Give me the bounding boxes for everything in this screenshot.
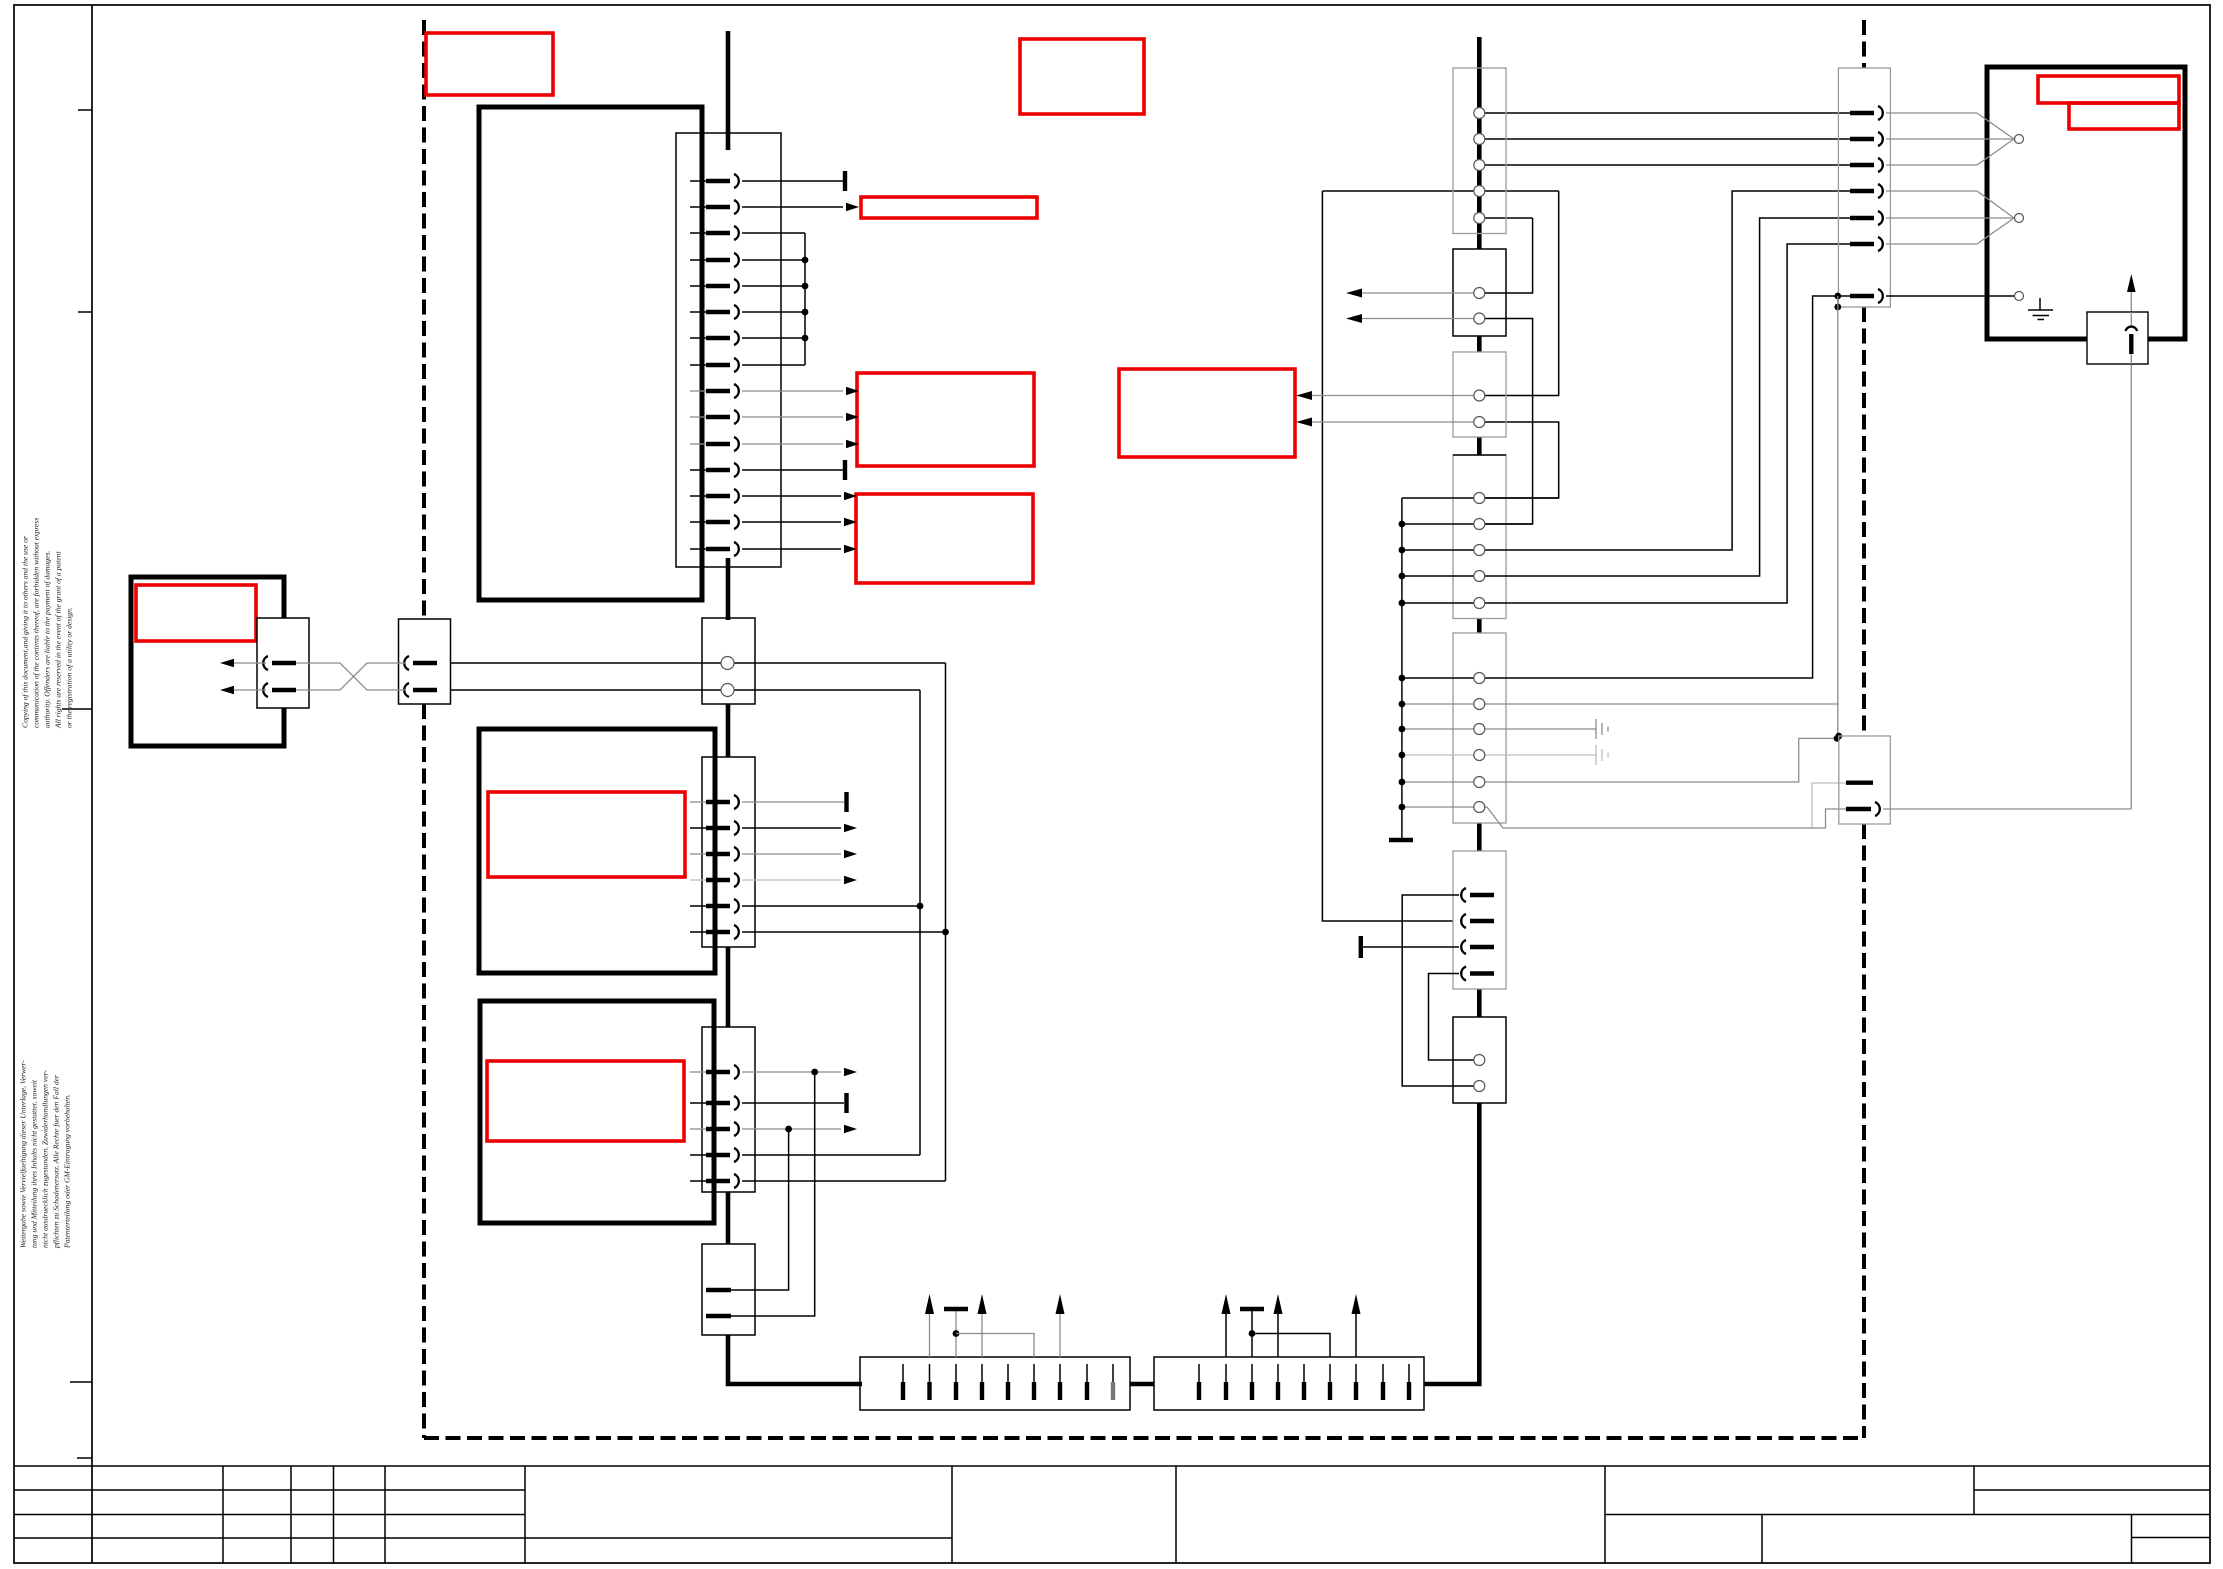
wire X1.11 arrow [742,443,843,445]
receiver stub 5 [1886,217,2013,219]
terminator T3 [844,792,848,812]
X11 pin 1 [1846,781,1873,785]
chassis ground 2 [1596,745,1608,765]
wire X1.1 to terminator [742,180,843,182]
X7 pin 1 [404,656,409,670]
component K4 outline (left device) [131,577,284,746]
svg-text:pflichten zu Schadenersatz. Al: pflichten zu Schadenersatz. Alle Rechte … [52,1075,61,1249]
svg-text:Patenterteilung oder GM-Eintra: Patenterteilung oder GM-Eintragung vorbe… [63,1094,72,1249]
shield drop wire [1837,296,1839,736]
cabinet boundary dashed right middle [1862,307,1866,736]
vertical net V1 [945,663,947,1181]
bus below X1 [726,558,731,620]
frame column divider [91,5,93,1563]
connector X3 body [702,757,755,947]
X8 arrow up 2 [981,1314,983,1357]
wire D1 [1402,497,1559,499]
wire X1.6 [742,311,805,313]
X9 arrow up 3 [1355,1314,1357,1357]
current source box [2087,312,2148,364]
wire E5 hook [1402,738,1837,782]
bus E to F [1477,823,1482,851]
boundary connector X11 body [1839,736,1891,824]
wire X1.5 [742,285,805,287]
title block column [951,1466,953,1563]
cabinet boundary dashed right top [1862,20,1866,68]
copyright notice german (rotated) [19,1060,72,1249]
receiver stub 3 [1886,164,1977,166]
connector X5 body [702,1244,755,1335]
wire row 165 [1479,164,1874,166]
right riser bus top stub [1477,37,1482,218]
wire X4.3 arrow [742,1128,841,1130]
X9 pin ticks [1199,1364,1409,1400]
label box L3 [488,792,685,877]
svg-text:Weitergabe sowie Vervielfaelti: Weitergabe sowie Vervielfaeltigung diese… [19,1060,28,1248]
wire X1.10 arrow [742,416,843,418]
arrow wire C2 [1312,421,1479,423]
arrow wire C1 [1312,395,1479,397]
chassis ground 1 [1596,719,1608,739]
receiver stub 2 [1886,138,2013,140]
wire E2 [1402,703,1839,705]
wire X1.8 [742,364,805,366]
wire X1.12 to terminator [742,469,843,471]
wire X4.4 [742,1154,920,1156]
svg-text:All rights are reserved in the: All rights are reserved in the event of … [54,551,63,729]
X8 arrow up 3 [1059,1314,1061,1357]
connector X1 body [676,133,781,567]
module circles G [1474,1055,1485,1092]
bus F to G [1477,989,1482,1017]
connector X5 pin 1 [706,1288,731,1292]
receiver triangle 1 [1977,113,2014,165]
bus stub top [726,31,731,150]
sense arrow up [2127,274,2136,292]
connector X4 body [702,1027,755,1192]
terminator T4 [844,1093,848,1113]
wire X3.6 [742,931,946,933]
vertical net V2 [919,690,921,1155]
net riser 1532 lower [1479,319,1532,525]
X9 arrow up 1 [1225,1314,1227,1357]
arrow out left 2 [234,689,266,691]
label box L11 [2069,103,2179,129]
wire X1.7 [742,337,805,339]
X8 pin ticks [903,1364,1113,1400]
component K2 outline [479,729,715,973]
arrow wire B1 [1362,292,1479,294]
svg-text:authority. Offenders are liabl: authority. Offenders are liable to the p… [43,551,52,728]
wire X3.2 arrow [742,827,841,829]
ground terminal circle [2015,292,2024,301]
module E body [1453,633,1506,823]
frame tick 5 [77,1457,92,1459]
wire X5.2 riser [731,1072,815,1316]
X10 pins [1850,106,1883,303]
crossing wire b [296,663,406,690]
bus A to B [1477,218,1482,249]
wire X4.2 to terminator [742,1102,844,1104]
net riser 1558 lower [1479,422,1558,498]
wire D5 riser to pin6 [1402,244,1874,603]
title block row line [14,1489,525,1491]
title block right column [2131,1515,2133,1564]
module circles D [1474,493,1485,609]
module F body [1453,851,1506,989]
wire X1.2 arrow [742,206,843,208]
module B body [1453,249,1506,336]
receiver stub 1 [1886,112,1977,114]
title block column [222,1466,224,1563]
boundary connector X10 body [1838,68,1890,307]
wire F4 to G1 [1429,974,1480,1061]
title block top line [14,1465,2210,1467]
title block column [290,1466,292,1563]
terminator T2 [843,460,847,480]
svg-text:Copying of this document,and g: Copying of this document,and giving it t… [21,536,30,728]
X8 supply bar [955,1311,957,1357]
bus below X2 [726,704,731,757]
module circles B [1474,288,1485,325]
svg-text:tung und Mitteilung ihres Inha: tung und Mitteilung ihres Inhalts nicht … [30,1079,39,1248]
collector bus terminator [1389,838,1413,842]
label box L5 [136,585,256,641]
module D top edge [1453,454,1506,456]
frame tick 4 [70,1381,92,1383]
crossing wire a [296,663,406,690]
cabinet boundary dashed bottom [424,1436,1864,1440]
wire X3.1 to terminator [742,801,844,803]
wire D2 [1402,523,1533,525]
cabinet boundary dashed left lower [422,704,426,1438]
module C body [1453,352,1506,437]
X9 supply bar [1251,1311,1253,1357]
wire D3 riser to pin4 [1402,191,1874,550]
collector bus riser with dots [1401,498,1403,840]
receiver stub 4 [1886,190,1977,192]
earth ground symbol [2028,298,2053,320]
receiver stub 6 [1886,243,1977,245]
strip connector X8 body [860,1357,1130,1410]
wire row 113 [1479,112,1874,114]
frame tick 3 [62,708,92,710]
wire X3.4 arrow [742,879,841,881]
bus C to D [1477,437,1482,455]
wire X4.5 [742,1180,946,1182]
X6 pin 2 [263,683,268,697]
wire E6 jog [1402,807,1846,828]
connector X3 pins [690,795,739,939]
label box L6 [861,197,1037,218]
junction to shield drop [1834,293,1841,300]
module G body [1453,1017,1506,1103]
wire D4 riser to pin5 [1402,218,1874,576]
current source sense line [2130,282,2132,809]
wire F3 terminator [1363,946,1459,948]
socket circle X2.1 [721,657,734,670]
cabinet boundary dashed left [422,20,426,619]
label box L4 [487,1061,684,1141]
ground wire [1886,295,2014,297]
wire row 663 [437,662,946,664]
wire X1.3 [742,232,805,234]
title block column [333,1466,335,1563]
terminator T5 [1359,936,1363,958]
wire X4.1 arrow [742,1071,841,1073]
label box L1 [426,33,553,95]
module circles A [1474,108,1485,224]
bypass riser left [1322,191,1453,921]
title block right column [1761,1515,1763,1564]
svg-text:or the registration of a utili: or the registration of a utility or desi… [65,607,74,728]
frame tick 2 [78,311,92,313]
component K3 outline [480,1001,714,1223]
net riser 1558 upper [1479,191,1558,396]
junction dots [802,257,809,264]
title block right row [1974,1489,2210,1491]
title block right cell line [1973,1466,1975,1515]
bus below X4 [726,1192,731,1244]
current source symbol [2130,312,2132,326]
title block column [1175,1466,1177,1563]
net riser 1532 upper [1479,218,1532,293]
wire row 690 [437,689,920,691]
wire row 139 [1479,138,1874,140]
bypass wire row 191 [1322,190,1558,192]
wire E3 to chassis [1402,728,1596,730]
wire F1 to G2 [1402,895,1479,1086]
bus below X3 [726,947,731,1027]
wire X1.4 [742,259,805,261]
title block row line [14,1537,952,1539]
copyright notice english (rotated) [21,518,74,729]
svg-text:nicht ausdruecklich zugestand: nicht ausdruecklich zugestanden. Zuwider… [41,1070,50,1248]
socket circle X2.2 [721,684,734,697]
X7 pin 2 [404,683,409,697]
module D body [1453,455,1506,619]
title block right row [1605,1514,2210,1516]
X11 pin1 tap [1812,783,1846,828]
wire A5 [1479,217,1532,219]
X8 arrow up 1 [929,1314,931,1357]
label box L10 [2038,76,2179,103]
bus to bottom strips [728,1335,862,1384]
module circles E [1474,673,1485,813]
sense return wire [1883,808,2131,810]
module circles C [1474,390,1485,428]
arrow wire B2 [1362,318,1479,320]
module A body [1453,68,1506,234]
component K5 outline (right device) [1987,67,2185,339]
wire X1.9 arrow [742,390,843,392]
title block column [1604,1466,1606,1563]
bus D to E [1477,619,1482,634]
title block column [524,1466,526,1563]
connector X5 pin 2 [706,1314,731,1318]
wire E1 riser to pin7 [1402,296,1874,678]
boundary connector X7 body [399,619,451,704]
wire X1.15 arrow [742,548,841,550]
svg-text:communication of the contents: communication of the contents thereof, a… [32,518,41,728]
frame tick 1 [78,109,92,111]
label box L8 [856,494,1033,583]
arrow out left 1 [234,662,266,664]
left device connector X6 body [257,618,309,708]
terminator T1 [843,171,847,191]
wire X1.14 arrow [742,521,841,523]
wire X3.5 [742,905,920,907]
receiver triangle 2 [1977,191,2014,244]
label box L7 [857,373,1034,466]
module F pins [1461,888,1494,981]
connector X1 pins [690,174,739,556]
wire X3.3 arrow [742,853,841,855]
strip connector X9 body [1154,1357,1424,1410]
cabinet boundary dashed right lower [1862,824,1866,1438]
wire E4 to chassis [1402,754,1596,756]
wire X1.13 arrow [742,495,841,497]
X9 arrow up 2 [1277,1314,1279,1357]
X11 pin 2 [1846,807,1871,811]
label box L2 [1020,39,1144,114]
label box L9 [1119,369,1295,457]
bus B to C [1477,336,1482,352]
component K1 outline [479,107,702,600]
title block row line [14,1514,525,1516]
bridge bus X1.3-X1.8 [804,233,806,365]
connector X2 body (socket circles) [702,618,755,704]
connector X4 pins [690,1065,739,1188]
strip to riser bus [1424,1103,1479,1384]
X6 pin 1 [263,656,268,670]
title block right row [2132,1537,2211,1539]
title block column [384,1466,386,1563]
wire X5.1 riser [731,1129,789,1290]
inter-strip bus [1130,1382,1154,1387]
